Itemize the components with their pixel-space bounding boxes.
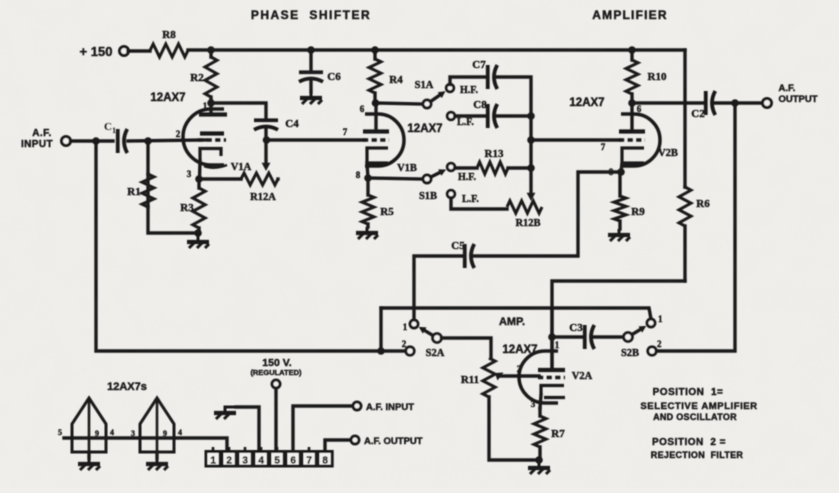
heater V2 (12AX7) xyxy=(140,398,174,452)
wire C4 to V1B grid pin7 xyxy=(266,138,364,141)
S1B arm xyxy=(431,171,442,177)
junction C8-bus xyxy=(527,112,535,120)
wire LF contact to C8 xyxy=(455,114,486,117)
wire V1B pin8 lead xyxy=(367,163,368,178)
wire C1 to V1A grid xyxy=(128,140,206,141)
S2A contact 1 xyxy=(410,320,418,328)
S1A arm xyxy=(431,93,442,101)
wire V2B pin6 plate lead xyxy=(630,103,633,129)
S1A pole xyxy=(423,100,431,108)
resistor R9 xyxy=(614,172,626,229)
junction C1-R1 xyxy=(144,137,152,145)
wire C2 to output xyxy=(713,101,762,104)
V1B grid xyxy=(363,138,389,141)
V2A plate xyxy=(538,368,565,372)
capacitor C4 xyxy=(254,120,278,130)
junction R10-plate-C2 xyxy=(628,99,636,107)
wire R6 bottom to V2A plate xyxy=(552,281,685,368)
wire lug6 to AF input terminal xyxy=(293,406,352,451)
S2B contact 2 xyxy=(648,347,656,355)
wire C6 top lead xyxy=(309,50,312,71)
capacitor C3 xyxy=(585,325,595,349)
S2A contact 2 xyxy=(406,347,414,355)
ground R9 xyxy=(608,229,630,241)
junction C4-grid7 xyxy=(263,136,271,144)
wire +150 to R8 xyxy=(128,49,150,52)
junction rail-R2 xyxy=(207,46,215,54)
wire C6 bottom lead xyxy=(309,80,312,92)
V1A grid xyxy=(198,138,226,141)
wire V2B cathode to C5 xyxy=(472,172,621,256)
junction R4-pin6-S1A xyxy=(372,99,380,107)
S1B contact L.F. xyxy=(447,190,455,198)
ground heater2 xyxy=(146,458,168,470)
wire pin1 to C4 xyxy=(211,103,266,119)
wire 150V to lug 5 xyxy=(274,389,277,452)
wire heater1 to ground xyxy=(87,452,90,458)
wire B+ rail xyxy=(188,48,685,51)
S2A pole xyxy=(433,334,442,343)
wire lug8 to AF output terminal xyxy=(325,440,350,451)
wire C3 to S2B pole xyxy=(593,335,623,338)
S1B contact H.F. xyxy=(447,163,455,171)
wire C4 bottom xyxy=(264,128,267,140)
ground R3 xyxy=(187,236,209,248)
junction pin3-R3-R12A xyxy=(195,175,203,183)
wire heater2 to ground xyxy=(155,452,158,458)
wire C8 to bus xyxy=(495,114,531,117)
wire crossbar to contact2 node xyxy=(379,308,382,351)
wire V2A pin3 lead xyxy=(540,395,541,408)
ground R5 xyxy=(356,227,378,239)
wire S2A node to S2B contact 1 xyxy=(381,308,651,319)
S1B pole xyxy=(423,175,431,183)
wire V1A pin3 lead xyxy=(198,161,202,179)
junction rail-R4 xyxy=(371,46,379,54)
ground heater1 xyxy=(78,458,100,470)
resistor R6 xyxy=(679,187,691,281)
capacitor C8 xyxy=(488,104,498,128)
potentiometer R12A xyxy=(199,173,278,185)
junction pin8 V2B xyxy=(617,168,625,176)
terminal A.F. INPUT bottom xyxy=(353,402,361,410)
capacitor C7 xyxy=(488,65,498,89)
wire feedback bottom left to S2A contact 2 xyxy=(96,141,404,351)
wire input to C1 xyxy=(71,139,114,142)
terminal +150 xyxy=(120,47,129,56)
triode V1A envelope xyxy=(183,109,224,165)
terminal A.F. INPUT xyxy=(62,137,71,146)
wire S2B contact2 to output feedback xyxy=(657,103,736,351)
wire V2A plate node to C3 xyxy=(552,335,582,338)
V2A cathode xyxy=(541,386,564,396)
junction input-feedback xyxy=(92,137,100,145)
wire pin3 to R3 xyxy=(197,179,200,188)
wire V2B pin8 lead xyxy=(621,163,622,172)
capacitor C5 xyxy=(465,244,475,268)
wire C7 to HF/LF bus down xyxy=(495,77,531,195)
S1A contact H.F. xyxy=(446,84,454,92)
S2A arm xyxy=(422,329,433,336)
wire V1A pin1 plate lead xyxy=(209,100,212,112)
junction pin1-R2-C4 xyxy=(207,99,215,107)
S2B arm xyxy=(632,328,643,335)
junction pin8-R5-S1B xyxy=(364,174,372,182)
junction R13-bus xyxy=(527,164,535,172)
heater V1 (12AX7) xyxy=(72,398,106,452)
resistor R13 xyxy=(455,162,531,174)
resistor R4 xyxy=(369,50,381,103)
potentiometer R12B xyxy=(507,201,542,213)
junction plate-C3 xyxy=(548,333,556,341)
S2B pole xyxy=(624,333,633,342)
wire ground to lug 4 xyxy=(236,407,259,451)
resistor R8 xyxy=(150,44,188,57)
junction rail-R10 xyxy=(628,46,636,54)
terminal strip lugs 1-8 xyxy=(206,447,332,467)
junction R7-R11-ground xyxy=(535,456,543,464)
R12B wiper arrow xyxy=(527,193,536,201)
junction rail-C6 xyxy=(307,46,315,54)
junction bus-grid V2B xyxy=(527,136,535,144)
junction crossbar-feedback xyxy=(377,347,385,355)
V1A grid bar xyxy=(200,131,224,135)
wire R11 wiper to V2A grid xyxy=(498,374,539,377)
wire R1 bottom to R3 bottom xyxy=(148,207,196,233)
resistor R1 xyxy=(142,141,154,207)
wire R3 bottom lead xyxy=(197,228,200,234)
R12A wiper arrow xyxy=(262,163,271,171)
wire HF contact to C7 xyxy=(450,77,486,85)
capacitor C1 xyxy=(118,129,128,153)
S1A contact L.F. xyxy=(447,112,455,120)
triode V1B envelope xyxy=(365,114,404,166)
triode V2B envelope xyxy=(621,114,660,166)
S2B contact 1 xyxy=(647,319,655,327)
V2A grid xyxy=(538,376,565,379)
resistor R3 xyxy=(193,188,205,228)
V1A plate xyxy=(199,112,227,116)
V1B plate xyxy=(363,129,389,133)
terminal 150V xyxy=(272,380,280,388)
potentiometer R11 xyxy=(483,358,495,397)
resistor R10 xyxy=(626,50,638,103)
wire plate to C2 xyxy=(632,101,704,104)
wire C5 to S2A contact 1 xyxy=(414,256,464,320)
resistor R2 xyxy=(205,50,217,103)
wire V1B pin6 plate lead xyxy=(374,103,377,129)
ground lug4 xyxy=(214,407,236,419)
V1A cathode xyxy=(200,149,221,162)
ground R7 xyxy=(528,462,550,474)
V2B cathode xyxy=(622,148,644,163)
wire S2A pole to R11 xyxy=(442,338,492,358)
V1A label leader xyxy=(204,165,227,168)
wire pin8 to S1B pole xyxy=(368,178,422,179)
wire LF S1B to R12B xyxy=(451,198,507,209)
wire pin6 to S1A pole xyxy=(375,103,422,104)
V1B cathode xyxy=(367,148,388,163)
V2B grid xyxy=(619,138,645,141)
resistor R7 xyxy=(534,408,546,460)
wire plate lead V2A xyxy=(550,308,553,368)
junction R3-R1 bottom xyxy=(194,229,202,237)
terminal A.F. OUTPUT xyxy=(763,99,772,108)
wire bus to V2B grid pin7 xyxy=(531,138,620,141)
capacitor C2 xyxy=(706,91,716,115)
capacitor C6 xyxy=(299,72,323,82)
V2B plate xyxy=(619,129,645,133)
ground C6 xyxy=(300,92,322,104)
R11 wiper arrow xyxy=(495,373,504,381)
wire rail corner down to R6 xyxy=(683,50,686,187)
junction output-feedback xyxy=(731,99,739,107)
wire R11 bottom to R7 bottom xyxy=(489,397,539,460)
triode V2A envelope xyxy=(519,351,558,403)
wire C4 node to R12A wiper xyxy=(264,140,267,164)
resistor R5 xyxy=(362,178,374,227)
wire heater bus to lug 2 xyxy=(64,438,227,451)
terminal A.F. OUTPUT bottom xyxy=(351,436,359,444)
